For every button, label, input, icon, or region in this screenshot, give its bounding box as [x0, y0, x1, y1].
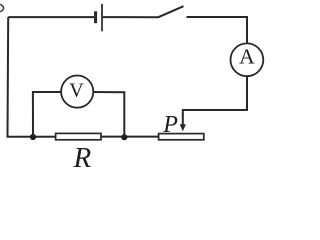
- svg-text:V: V: [69, 79, 84, 101]
- wire: bottom rail from rheostat left terminal to bottom-left corner, up left side: [8, 17, 159, 137]
- svg-text:P: P: [162, 112, 178, 138]
- wire: switch contact to top-right corner, down to ammeter: [187, 17, 248, 44]
- rheostat P body: [159, 134, 204, 140]
- battery cell: short thick negative plate: [94, 11, 97, 23]
- svg-text:R: R: [73, 142, 92, 168]
- battery cell: long thin positive plate: [101, 4, 103, 31]
- cropped circled-figure-label arc at top-left edge: [0, 4, 3, 12]
- node: right junction dot: [121, 134, 127, 140]
- wire: ammeter bottom to rheostat slider arm (down, left, down): [183, 76, 247, 125]
- voltmeter V: [61, 76, 93, 108]
- resistor R body: [56, 133, 101, 139]
- node: left junction dot: [30, 134, 36, 140]
- wire: top-left corner horizontal segment to battery: [8, 16, 94, 18]
- wire: battery to switch pivot: [103, 16, 158, 18]
- ammeter A: [231, 43, 264, 76]
- svg-text:A: A: [239, 45, 255, 69]
- wire: voltmeter branch left riser: [33, 92, 61, 137]
- rheostat slider arrowhead: [180, 124, 186, 131]
- wire: voltmeter branch right riser: [93, 92, 124, 137]
- switch S lever (open): [158, 6, 184, 17]
